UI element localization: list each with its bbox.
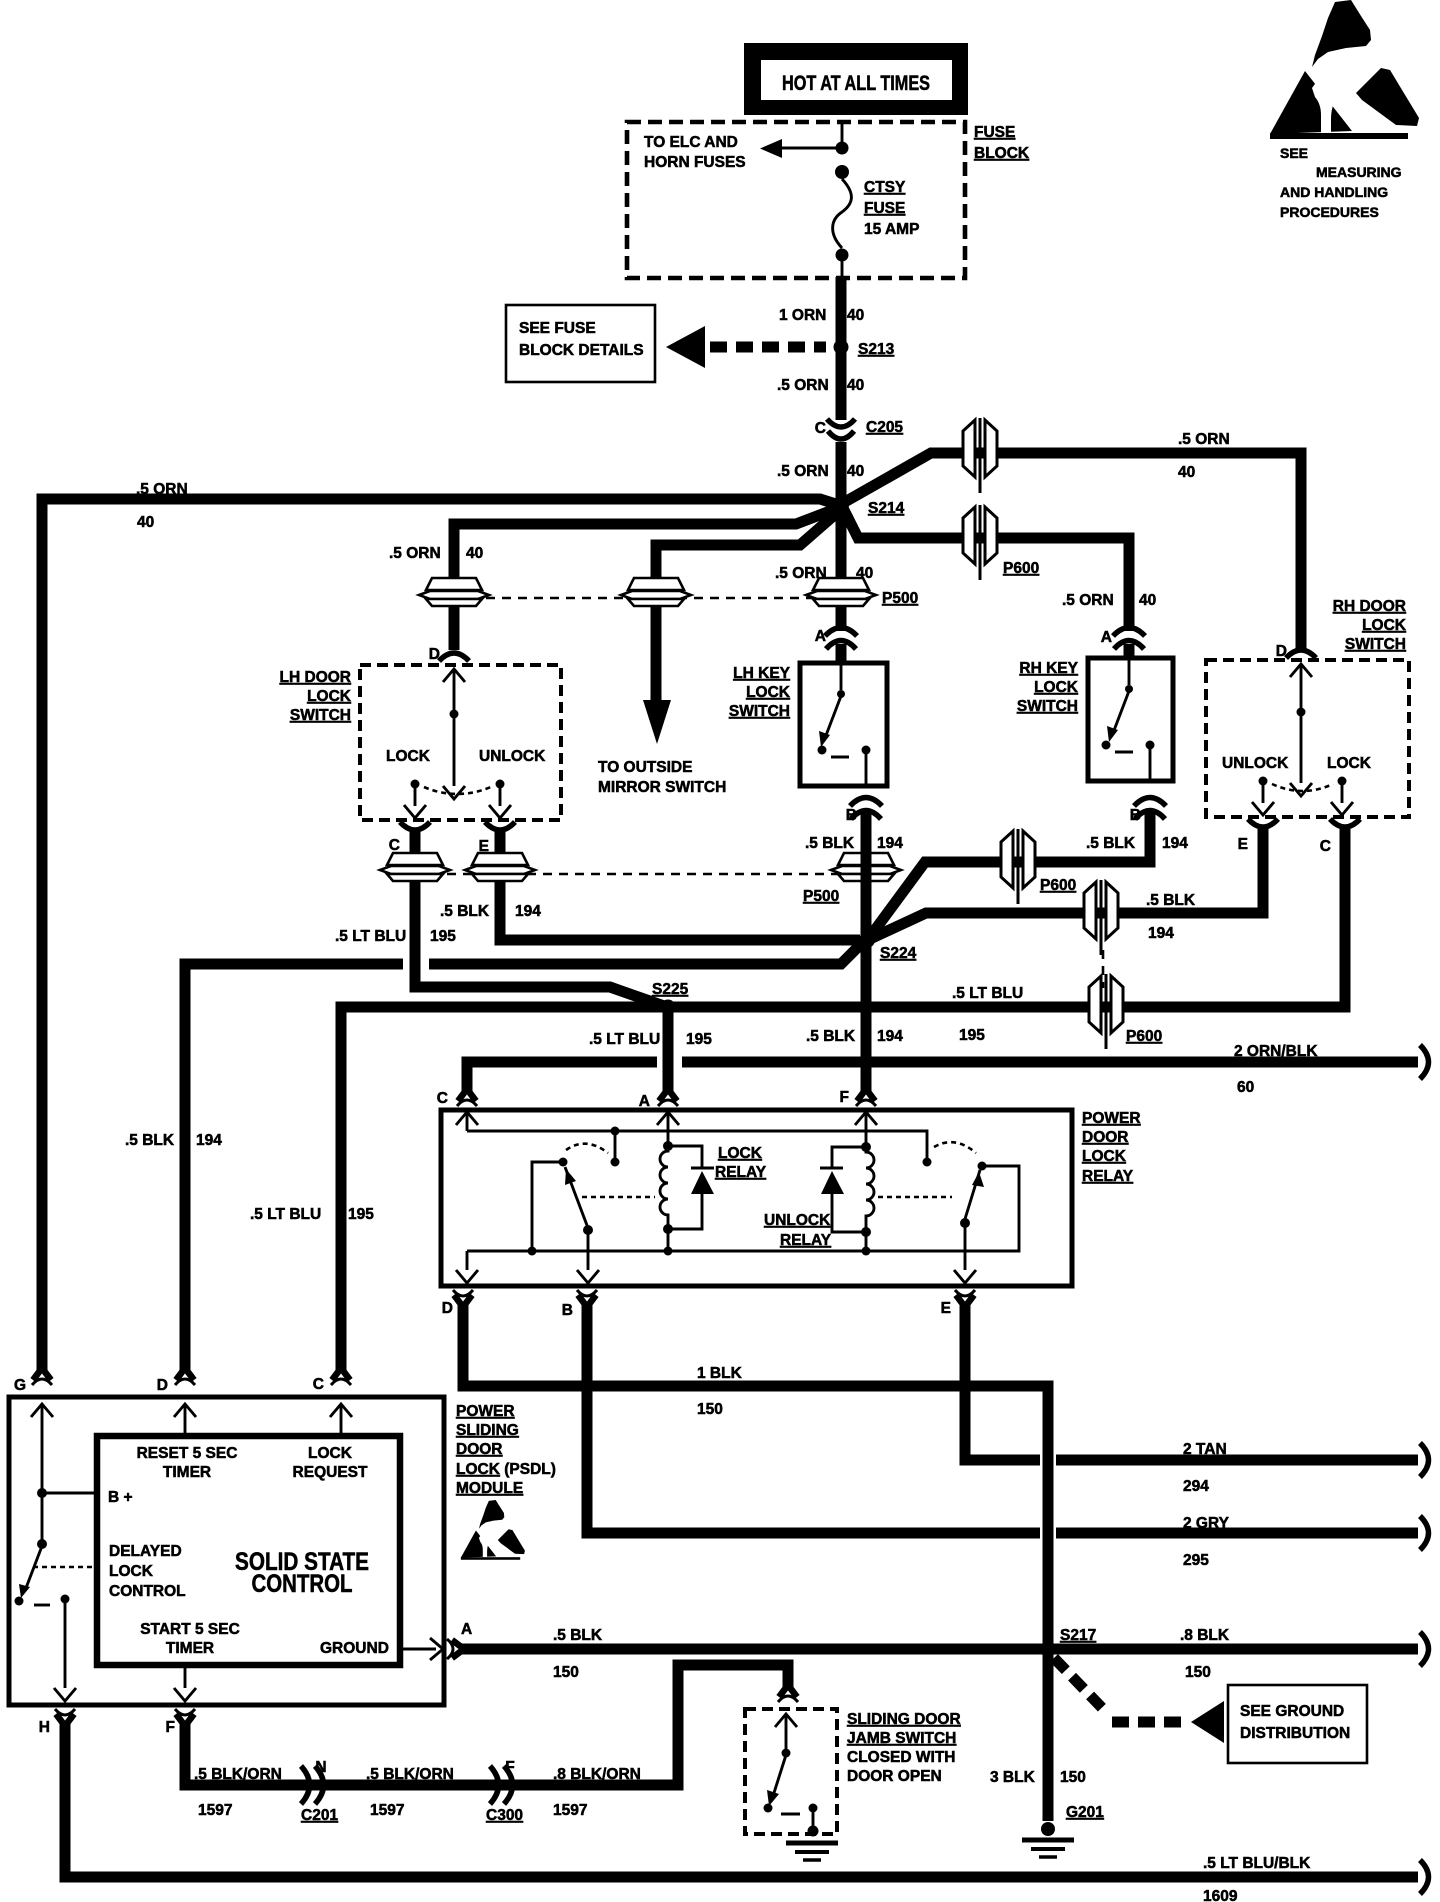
RH door unlock contact: [1252, 777, 1274, 816]
svg-text:FUSE: FUSE: [974, 124, 1015, 141]
RH key lock switch box: [1088, 658, 1173, 781]
svg-text:LOCK: LOCK: [308, 1445, 353, 1462]
jamb switch pivot node: [782, 1749, 791, 1758]
unlock relay dashed actuator link: [878, 1196, 952, 1199]
svg-text:1 BLK: 1 BLK: [697, 1365, 743, 1382]
svg-text:40: 40: [137, 514, 154, 531]
PSDL C input arrow: [330, 1404, 352, 1434]
lock relay armature pivot: [532, 1158, 568, 1252]
relay pin D: [453, 1290, 473, 1307]
svg-text:RH KEY: RH KEY: [1019, 660, 1078, 677]
svg-text:DOOR OPEN: DOOR OPEN: [847, 1768, 942, 1785]
connector C205: [827, 419, 855, 439]
label .5 BLK 194 under LH key B: [805, 835, 903, 852]
splice S217: [1041, 1643, 1056, 1658]
grommet on LH door D wire: [419, 578, 489, 606]
connector B pair LH key: [850, 798, 882, 820]
solid state control inner box: [97, 1436, 400, 1665]
lock relay coil node top: [663, 1141, 673, 1151]
relay pin B: [577, 1290, 597, 1307]
end hook 2 TAN: [1420, 1443, 1429, 1477]
svg-text:CONTROL: CONTROL: [109, 1583, 186, 1600]
wire 1 ORN 40 fuse block to S213: [836, 277, 847, 420]
RH door switch pivot node: [1297, 708, 1306, 717]
wire .5 ORN C205 to S214: [836, 442, 847, 505]
svg-text:RESET 5 SEC: RESET 5 SEC: [137, 1445, 238, 1462]
svg-text:LH DOOR: LH DOOR: [280, 669, 351, 686]
relay F input arrow: [855, 1112, 877, 1144]
svg-text:SWITCH: SWITCH: [290, 707, 351, 724]
power door lock relay box: [441, 1110, 1072, 1286]
connector E below RH door: [1248, 819, 1278, 827]
label .5 ORN 40 above S214: [777, 463, 864, 480]
dashed wire S217 to ground distribution: [1054, 1658, 1224, 1743]
PSDL pin C: [331, 1368, 351, 1385]
svg-text:.5 ORN: .5 ORN: [777, 377, 829, 394]
svg-text:150: 150: [1060, 1769, 1086, 1786]
svg-text:CTSY: CTSY: [864, 179, 906, 196]
wire from fuse block top to node: [841, 124, 844, 142]
svg-text:1609: 1609: [1203, 1888, 1238, 1902]
dashed grommet line lower: [415, 873, 866, 876]
RH key contact dash: [1115, 751, 1133, 754]
svg-text:DELAYED: DELAYED: [109, 1543, 182, 1560]
label .5 BLK 194 under RH key B: [1086, 835, 1188, 852]
svg-text:H: H: [39, 1719, 50, 1736]
label DELAYED LOCK CONTROL: [109, 1543, 186, 1600]
wire relay D to ground run 1 BLK 150: [463, 1304, 1048, 1821]
svg-text:F: F: [166, 1719, 175, 1736]
svg-text:RH DOOR: RH DOOR: [1333, 598, 1406, 615]
svg-text:DOOR: DOOR: [1082, 1129, 1129, 1146]
svg-text:150: 150: [1185, 1664, 1211, 1681]
svg-text:40: 40: [1139, 592, 1156, 609]
dashed line between P600 connectors: [1102, 950, 1105, 988]
svg-text:RELAY: RELAY: [715, 1164, 767, 1181]
svg-text:195: 195: [430, 928, 456, 945]
fuse CTSY FUSE 15 AMP: [833, 179, 852, 248]
svg-text:194: 194: [877, 1028, 903, 1045]
RH door switch dashed throw arc: [1272, 784, 1333, 791]
svg-text:BLOCK: BLOCK: [974, 145, 1030, 162]
svg-text:UNLOCK: UNLOCK: [764, 1212, 831, 1229]
svg-text:40: 40: [1178, 464, 1195, 481]
jamb switch connector pin: [778, 1685, 798, 1702]
svg-text:195: 195: [686, 1031, 712, 1048]
wire .5 LT BLU LH door C to S225: [415, 832, 664, 1006]
svg-text:SEE GROUND: SEE GROUND: [1240, 1703, 1344, 1720]
label 2 ORN/BLK 60: [1234, 1043, 1318, 1096]
svg-text:FUSE: FUSE: [864, 200, 905, 217]
svg-text:.5 LT BLU/BLK: .5 LT BLU/BLK: [1203, 1855, 1311, 1872]
svg-text:LOCK: LOCK: [718, 1145, 763, 1162]
rail node at unlock coil: [862, 1247, 871, 1256]
svg-text:TO ELC AND: TO ELC AND: [644, 134, 738, 151]
unlock relay armature: [965, 1170, 984, 1219]
svg-text:MODULE: MODULE: [456, 1480, 523, 1497]
svg-text:.5 BLK: .5 BLK: [805, 835, 855, 852]
svg-text:REQUEST: REQUEST: [293, 1464, 368, 1481]
svg-text:UNLOCK: UNLOCK: [479, 748, 546, 765]
lock relay dashed swing arc: [566, 1144, 608, 1153]
label .5 ORN 40 on RH key A wire: [1062, 592, 1156, 609]
svg-text:C: C: [815, 420, 826, 437]
connector A pair LH key: [825, 628, 857, 650]
svg-text:GROUND: GROUND: [320, 1640, 389, 1657]
svg-text:POWER: POWER: [456, 1403, 515, 1420]
RH key right contact: [1146, 741, 1155, 782]
svg-text:C201: C201: [301, 1807, 338, 1824]
label 1 BLK 150: [697, 1365, 743, 1418]
svg-text:D: D: [157, 1377, 168, 1394]
svg-text:295: 295: [1183, 1552, 1209, 1569]
label START 5 SEC TIMER: [140, 1621, 240, 1657]
PSDL pin H: [55, 1709, 75, 1726]
svg-text:A: A: [815, 628, 826, 645]
relay bottom rail: [467, 1166, 1019, 1251]
delayed lock switch blade: [19, 1546, 42, 1598]
svg-text:S225: S225: [652, 981, 689, 998]
relay pin F: [856, 1089, 876, 1106]
relay pin E internal arrow: [954, 1223, 976, 1283]
svg-text:195: 195: [959, 1027, 985, 1044]
end hook 2 GRY: [1420, 1516, 1429, 1550]
label .5 ORN 40 on D wire: [389, 545, 483, 562]
wire RH door C to S225: [672, 829, 1345, 1007]
delayed lock dashed control link: [33, 1566, 97, 1569]
label C C205: [815, 419, 904, 437]
label .5 BLK/ORN 1597 mid: [366, 1766, 454, 1819]
svg-text:HORN FUSES: HORN FUSES: [644, 154, 746, 171]
label RH KEY LOCK SWITCH: [1017, 660, 1079, 715]
svg-text:P600: P600: [1126, 1028, 1162, 1045]
ESD symbol small: [461, 1500, 525, 1560]
svg-text:1 ORN: 1 ORN: [779, 307, 826, 324]
node dot CTSY fuse bottom: [836, 249, 849, 262]
PSDL ground output arrow: [400, 1638, 443, 1660]
svg-text:D: D: [429, 646, 440, 663]
wire S214 down to P500: [836, 505, 847, 663]
label SEE MEASURING AND HANDLING PROCEDURES: [1280, 145, 1402, 220]
label RESET 5 SEC TIMER: [137, 1445, 238, 1481]
svg-text:G: G: [14, 1377, 26, 1394]
unlock relay armature lower node: [960, 1218, 970, 1228]
box SEE GROUND DISTRIBUTION: [1228, 1685, 1367, 1763]
svg-text:CLOSED WITH: CLOSED WITH: [847, 1749, 956, 1766]
label F C300: [486, 1759, 523, 1824]
svg-text:C205: C205: [866, 419, 903, 436]
svg-text:A: A: [1101, 629, 1112, 646]
LH key contact dash: [831, 756, 849, 759]
svg-text:SLIDING DOOR: SLIDING DOOR: [847, 1711, 961, 1728]
svg-text:P600: P600: [1003, 560, 1039, 577]
svg-text:P500: P500: [882, 590, 918, 607]
svg-text:D: D: [442, 1300, 453, 1317]
svg-text:.5 LT BLU: .5 LT BLU: [250, 1206, 321, 1223]
svg-text:SEE: SEE: [1280, 145, 1308, 161]
svg-text:CONTROL: CONTROL: [252, 1570, 353, 1598]
connector D at LH door lock switch: [439, 653, 469, 661]
relay A input arrow: [657, 1112, 679, 1143]
RH key left contact: [1102, 741, 1111, 750]
label .5 ORN 40 right top: [1178, 431, 1230, 481]
end hook .5 LT BLU/BLK: [1420, 1860, 1429, 1894]
wire fuse to box edge: [841, 261, 844, 278]
label .5 ORN 40 above P500: [775, 565, 873, 582]
svg-text:G201: G201: [1066, 1804, 1104, 1821]
svg-text:1597: 1597: [553, 1802, 587, 1819]
svg-text:2 GRY: 2 GRY: [1183, 1515, 1230, 1532]
LH door switch wiper arrow: [443, 714, 465, 799]
svg-text:.5 BLK/ORN: .5 BLK/ORN: [194, 1766, 282, 1783]
svg-text:195: 195: [348, 1206, 374, 1223]
PSDL pin A: [447, 1639, 464, 1659]
svg-text:.5 BLK: .5 BLK: [1146, 892, 1196, 909]
wire RH key B to S224: [869, 813, 1150, 938]
LH key lock switch box: [800, 663, 887, 786]
PSDL D input arrow: [174, 1404, 196, 1434]
rail node at lock coil: [664, 1247, 673, 1256]
end hook .8 BLK: [1420, 1632, 1429, 1666]
unlock relay diode D2: [820, 1147, 866, 1232]
splice S225: [661, 1000, 676, 1015]
connector C201: [301, 1766, 324, 1804]
LH door switch dashed throw arc: [424, 787, 491, 794]
svg-text:.5 BLK: .5 BLK: [1086, 835, 1136, 852]
svg-text:RELAY: RELAY: [1082, 1168, 1134, 1185]
svg-text:LOCK: LOCK: [1327, 755, 1372, 772]
label .5 BLK 194 right of P600: [1146, 892, 1196, 942]
unlock relay coil node top: [861, 1142, 871, 1152]
label .5 LT BLU/BLK 1609: [1203, 1855, 1311, 1902]
label TO OUTSIDE MIRROR SWITCH: [598, 759, 726, 796]
relay pin C: [457, 1089, 477, 1106]
svg-text:LOCK: LOCK: [746, 684, 791, 701]
svg-text:40: 40: [847, 307, 864, 324]
wire S214 up-right to RH door D: [843, 453, 1301, 650]
label LH KEY LOCK SWITCH: [729, 665, 791, 720]
svg-text:.5 BLK: .5 BLK: [553, 1627, 603, 1644]
svg-text:.5 ORN: .5 ORN: [389, 545, 441, 562]
label .5 BLK 194 above relay F: [806, 1028, 903, 1045]
svg-text:START 5 SEC: START 5 SEC: [140, 1621, 240, 1638]
lock relay coil to rail: [667, 1229, 670, 1251]
svg-text:UNLOCK: UNLOCK: [1222, 755, 1289, 772]
LH door unlock contact: [489, 780, 511, 819]
svg-text:S214: S214: [868, 500, 905, 517]
svg-text:A: A: [639, 1093, 650, 1110]
splice S213: [834, 340, 849, 355]
grommet P500 on LH key B wire: [831, 853, 901, 881]
label RH DOOR LOCK SWITCH: [1333, 598, 1407, 653]
svg-text:E: E: [941, 1300, 951, 1317]
label SOLID STATE CONTROL: [235, 1548, 369, 1598]
svg-text:.5 LT BLU: .5 LT BLU: [952, 985, 1023, 1002]
label .5 LT BLU 195 under C: [335, 928, 456, 945]
svg-text:P600: P600: [1040, 877, 1076, 894]
PSDL pin F: [175, 1709, 195, 1726]
svg-text:40: 40: [847, 377, 864, 394]
svg-text:LOCK: LOCK: [307, 688, 352, 705]
LH key right contact: [862, 746, 871, 787]
label .8 BLK 150: [1180, 1627, 1230, 1681]
svg-text:LOCK: LOCK: [1034, 679, 1079, 696]
wire .5 BLK 150 PSDL A to S217: [462, 1644, 1418, 1655]
grommet on LH door E wire: [465, 853, 535, 881]
RH door switch wiper arrow: [1290, 712, 1312, 796]
label .5 LT BLU 195 on S225 right wire: [952, 985, 1023, 1044]
arrow to ELC and horn fuses: [760, 139, 838, 158]
svg-text:C: C: [389, 837, 400, 854]
RH key switch blade: [1107, 691, 1129, 742]
svg-text:.5 ORN: .5 ORN: [136, 481, 188, 498]
rail node at armature branch: [528, 1247, 537, 1256]
svg-text:B: B: [846, 807, 857, 824]
svg-text:JAMB SWITCH: JAMB SWITCH: [847, 1730, 956, 1747]
svg-text:S213: S213: [858, 341, 895, 358]
wire relay B to 2 GRY: [587, 1304, 1418, 1533]
svg-text:294: 294: [1183, 1478, 1209, 1495]
connector A pair RH key: [1113, 628, 1145, 650]
arrow to outside mirror switch: [643, 700, 671, 744]
svg-text:.8 BLK/ORN: .8 BLK/ORN: [553, 1766, 641, 1783]
LH key switch blade: [819, 696, 841, 747]
end hook 2 ORN BLK: [1420, 1045, 1429, 1079]
svg-text:C: C: [1320, 838, 1331, 855]
connector C300: [490, 1766, 513, 1804]
svg-text:C300: C300: [486, 1807, 523, 1824]
wire A into RH key box: [1124, 644, 1135, 658]
relay pin B internal arrow: [577, 1230, 599, 1283]
svg-text:1597: 1597: [370, 1802, 404, 1819]
connector B pair RH key: [1134, 798, 1166, 820]
svg-text:40: 40: [466, 545, 483, 562]
unlock relay stationary contact: [923, 1158, 932, 1167]
grommet on LH door C wire: [380, 853, 450, 881]
wire S225 down to relay A: [663, 1010, 674, 1092]
label UNLOCK RELAY: [764, 1212, 832, 1249]
svg-text:.5 BLK/ORN: .5 BLK/ORN: [366, 1766, 454, 1783]
PSDL G input arrow: [31, 1404, 53, 1542]
connector D at RH door: [1286, 650, 1316, 658]
dashed arrow to see fuse block details: [666, 326, 826, 368]
svg-text:40: 40: [847, 463, 864, 480]
label 1 ORN 40: [779, 307, 864, 324]
jamb switch blade: [767, 1755, 786, 1806]
unlock relay coil to rail: [865, 1232, 868, 1251]
relay top feed rail: [467, 1131, 927, 1158]
svg-text:.5 BLK: .5 BLK: [125, 1132, 175, 1149]
wire .5 LT BLU/BLK PSDL H to right: [65, 1723, 1418, 1877]
svg-text:15 AMP: 15 AMP: [864, 221, 919, 238]
node dot CTSY fuse top: [835, 165, 849, 179]
unlock relay coil: [866, 1147, 874, 1232]
dashed grommet line upper: [454, 597, 841, 600]
wire RH door E to S224: [870, 829, 1263, 939]
LH key left contact: [818, 746, 827, 755]
wire .5 BLK/ORN PSDL F to jamb switch: [185, 1665, 788, 1785]
svg-text:194: 194: [1148, 925, 1174, 942]
label LOCK RELAY: [715, 1145, 767, 1181]
label POWER DOOR LOCK RELAY: [1082, 1110, 1141, 1185]
svg-text:E: E: [1238, 836, 1248, 853]
svg-text:LOCK: LOCK: [109, 1563, 154, 1580]
grommet on mirror feed wire: [621, 578, 691, 606]
svg-text:LOCK: LOCK: [386, 748, 431, 765]
svg-text:SEE FUSE: SEE FUSE: [519, 320, 596, 337]
svg-text:P500: P500: [803, 888, 839, 905]
svg-text:TIMER: TIMER: [163, 1464, 211, 1481]
svg-text:194: 194: [515, 903, 541, 920]
svg-text:C: C: [437, 1090, 448, 1107]
PSDL module outer box: [9, 1397, 444, 1705]
RH door lock switch dashed box: [1206, 660, 1409, 817]
relay pin D internal arrow: [456, 1251, 478, 1283]
fuse block dashed box: [627, 122, 965, 278]
PSDL F output arrow: [174, 1665, 196, 1701]
svg-text:DISTRIBUTION: DISTRIBUTION: [1240, 1725, 1350, 1742]
unlock relay coil node bottom: [861, 1227, 871, 1237]
label LOCK REQUEST: [293, 1445, 368, 1481]
lock relay armature lower node: [583, 1225, 593, 1235]
label SLIDING DOOR JAMB SWITCH CLOSED WITH DOOR OPEN: [847, 1711, 961, 1785]
svg-text:B: B: [562, 1302, 573, 1319]
label .5 LT BLU 195 on PSDL C wire: [250, 1206, 374, 1223]
label FUSE BLOCK: [974, 124, 1030, 162]
wire relay C to 2 ORN BLK: [467, 1062, 1418, 1092]
label 2 GRY 295: [1183, 1515, 1230, 1569]
svg-text:LOCK: LOCK: [1362, 617, 1407, 634]
svg-text:.5 LT BLU: .5 LT BLU: [589, 1031, 660, 1048]
svg-text:S217: S217: [1060, 1627, 1096, 1644]
svg-text:C: C: [313, 1376, 324, 1393]
HOT AT ALL TIMES power box: [744, 43, 968, 115]
svg-text:150: 150: [553, 1664, 579, 1681]
label 2 TAN 294: [1183, 1441, 1227, 1495]
LH door switch input arrow: [443, 669, 465, 710]
svg-text:HOT AT ALL TIMES: HOT AT ALL TIMES: [782, 72, 930, 95]
splice S214: [833, 497, 849, 513]
svg-text:SWITCH: SWITCH: [1345, 636, 1406, 653]
svg-text:DOOR: DOOR: [456, 1441, 503, 1458]
svg-text:.5 BLK: .5 BLK: [806, 1028, 856, 1045]
label .5 BLK/ORN 1597: [194, 1766, 282, 1819]
connector E below LH door switch: [485, 822, 515, 830]
B+ tap node: [37, 1488, 47, 1498]
relay pin A: [658, 1089, 678, 1106]
jamb switch ground: [786, 1826, 838, 1861]
RH key switch pole: [1125, 658, 1133, 693]
svg-text:D: D: [1276, 643, 1287, 660]
delayed lock switch pivot node: [37, 1539, 47, 1549]
svg-text:60: 60: [1237, 1079, 1254, 1096]
svg-text:LH KEY: LH KEY: [733, 665, 791, 682]
jamb contact dash: [781, 1813, 800, 1816]
svg-text:.5 ORN: .5 ORN: [1178, 431, 1230, 448]
label .5 ORN 40 top left: [136, 481, 188, 531]
svg-text:RELAY: RELAY: [780, 1232, 832, 1249]
wire S214 left long to PSDL G: [42, 499, 839, 1371]
sliding door jamb switch dashed box: [745, 1709, 837, 1834]
svg-text:SWITCH: SWITCH: [1017, 698, 1078, 715]
ESD symbol large: [1270, 0, 1419, 139]
splice S224: [859, 932, 875, 948]
node dot above CTSY fuse: [836, 142, 849, 155]
wire .5 BLK LH door E to S224: [500, 832, 860, 940]
lock relay dashed actuator link: [582, 1196, 655, 1199]
lock relay coil: [660, 1146, 668, 1229]
label 3 BLK 150: [990, 1769, 1086, 1786]
